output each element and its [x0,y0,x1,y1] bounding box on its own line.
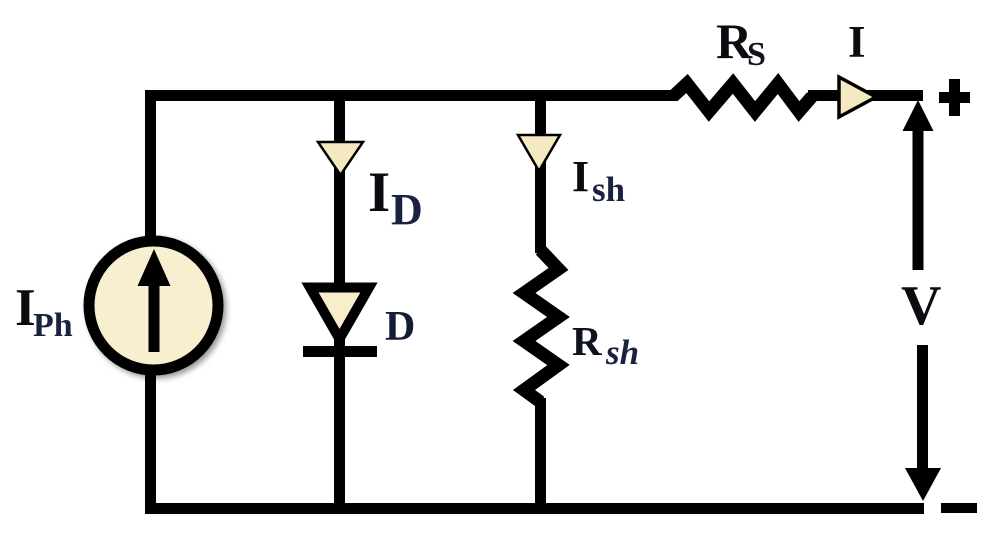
svg-text:R: R [572,318,602,364]
svg-text:I: I [368,161,390,224]
diode D cathode bar [303,346,377,357]
wire top right segment (RS to + terminal) [808,90,923,101]
terminal + (positive output) [939,79,970,116]
current source U1 circle (Iph) with shadow [89,241,218,370]
current arrow I (cream triangle right, on output wire) [839,77,876,117]
svg-text:D: D [391,185,423,234]
wire top horizontal (node A: Iph/diode/Rsh junction rail) [145,90,677,101]
svg-text:S: S [747,36,766,73]
svg-text:I: I [848,17,866,67]
wire left vertical (Iph branch) [145,90,156,514]
voltage arrow V upper (points up to + terminal) [903,100,934,270]
current arrow ID (cream triangle down) [318,142,363,175]
svg-text:sh: sh [592,170,625,209]
svg-text:Ph: Ph [33,307,73,344]
current source arrow (up) [138,249,171,352]
wire shunt branch vertical upper [535,95,546,253]
terminal - (negative output) [941,503,977,513]
svg-text:D: D [385,304,415,350]
diode D triangle [310,288,369,340]
wire shunt branch vertical lower [535,398,546,508]
wire bottom horizontal (negative rail) [145,503,924,514]
current arrow Ish (cream triangle down) [518,135,560,171]
svg-text:I: I [572,152,589,201]
svg-text:V: V [901,275,941,337]
voltage arrow V lower (points down to - terminal) [905,345,941,501]
svg-text:sh: sh [605,333,639,372]
resistor Rsh zigzag [524,250,559,402]
wire diode branch vertical [334,95,345,508]
resistor RS zigzag [673,84,812,112]
